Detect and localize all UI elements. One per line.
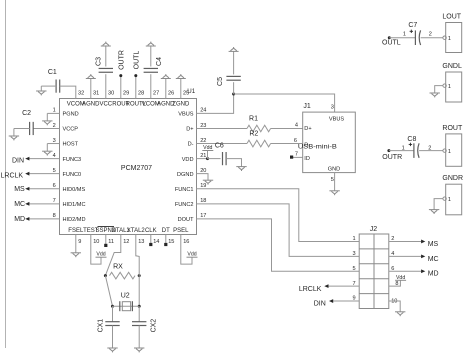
svg-text:3: 3 bbox=[352, 251, 355, 257]
wire C4 to analog ground flag bbox=[150, 46, 152, 67]
svg-text:PSEL: PSEL bbox=[173, 228, 189, 234]
wire U1 pin 27 to C4 bbox=[150, 74, 152, 98]
svg-text:5: 5 bbox=[53, 168, 56, 174]
wire U1 pin 20 DGND stub bbox=[197, 174, 209, 181]
resistor RX bbox=[110, 263, 136, 279]
ground at GNDR bbox=[429, 210, 439, 214]
svg-text:DIN: DIN bbox=[314, 301, 326, 308]
svg-text:OUTR: OUTR bbox=[118, 50, 125, 70]
ground at pin 3 bbox=[42, 151, 52, 155]
wire U1 pin 18 FUNC2 to J2 pin 3 bbox=[197, 204, 360, 257]
svg-text:5: 5 bbox=[352, 266, 355, 272]
J1 pin 5 GND bbox=[328, 167, 340, 184]
svg-text:MS: MS bbox=[428, 241, 439, 248]
node U2 left bbox=[111, 305, 114, 308]
ground at CX2 bbox=[134, 348, 144, 352]
port MC bbox=[14, 201, 29, 208]
wire C6 to ground bbox=[226, 159, 241, 167]
svg-text:1: 1 bbox=[448, 36, 451, 42]
U1 right pin numbers 24-17 bbox=[200, 108, 206, 219]
svg-text:D-: D- bbox=[304, 142, 310, 148]
wire C1 to U1 pin 32 bbox=[60, 86, 76, 98]
wire RX right to crystal U2 bbox=[138, 276, 140, 307]
wire MC to U1 pin 7 bbox=[29, 203, 60, 205]
svg-text:20: 20 bbox=[200, 168, 206, 174]
no-connect square at pin 11 bbox=[104, 244, 107, 247]
svg-text:2: 2 bbox=[429, 32, 432, 38]
svg-text:VDD: VDD bbox=[182, 157, 194, 163]
svg-text:2: 2 bbox=[428, 146, 431, 152]
wire DIN to U1 pin 4 bbox=[29, 158, 60, 160]
J1 value label USB-mini-B bbox=[298, 143, 337, 150]
wire C3 to analog ground flag bbox=[105, 46, 107, 67]
svg-text:D+: D+ bbox=[186, 127, 193, 133]
svg-text:28: 28 bbox=[138, 90, 144, 96]
svg-text:2: 2 bbox=[53, 123, 56, 129]
svg-text:24: 24 bbox=[200, 108, 206, 114]
svg-text:OUTL: OUTL bbox=[133, 51, 140, 70]
wire U1 pin 3 HOST stub bbox=[47, 144, 59, 152]
wire MS to U1 pin 6 bbox=[29, 188, 60, 190]
svg-text:C2: C2 bbox=[22, 110, 31, 117]
U1 value label PCM2707 bbox=[121, 165, 152, 172]
analog ground flag at pin 31 bbox=[86, 74, 96, 78]
svg-text:29: 29 bbox=[123, 90, 129, 96]
svg-text:U2: U2 bbox=[121, 293, 130, 300]
port MS right bbox=[421, 240, 438, 248]
svg-text:9: 9 bbox=[78, 239, 81, 245]
svg-text:C8: C8 bbox=[407, 136, 416, 143]
svg-text:22: 22 bbox=[200, 138, 206, 144]
power flag Vdd at pin 21 bbox=[202, 145, 213, 151]
wire J2 pin 4 to MC bbox=[389, 255, 421, 257]
wire U1 pin 25 up bbox=[180, 79, 182, 99]
svg-text:7: 7 bbox=[295, 152, 298, 158]
node XTAL2 at RX right bbox=[138, 274, 141, 277]
svg-text:3: 3 bbox=[331, 104, 334, 110]
svg-text:CX2: CX2 bbox=[150, 319, 157, 333]
wire C2 to ground bbox=[14, 128, 30, 136]
svg-text:AGND: AGND bbox=[82, 101, 100, 107]
svg-text:C1: C1 bbox=[48, 69, 57, 76]
wire node to Vdd flag bbox=[207, 151, 209, 159]
svg-text:10: 10 bbox=[391, 299, 397, 305]
svg-text:4: 4 bbox=[295, 123, 298, 129]
port LRCLK bbox=[1, 172, 30, 180]
wire U2 right to CX2 bbox=[138, 306, 140, 322]
capacitor C4 bbox=[144, 57, 163, 72]
wire R2 to J1 pin 6 bbox=[271, 143, 303, 145]
wire U1 pin 12 XTAL1 to RX bbox=[105, 235, 120, 276]
svg-text:R2: R2 bbox=[249, 130, 258, 137]
ground at pin 1 bbox=[42, 121, 52, 125]
svg-text:GNDR: GNDR bbox=[442, 175, 463, 182]
wire U1 pin 29 to node OUTR bbox=[120, 76, 122, 99]
svg-text:14: 14 bbox=[153, 239, 159, 245]
svg-text:FUNC0: FUNC0 bbox=[63, 172, 82, 178]
power flag Vdd at J2 pin 8 bbox=[395, 275, 406, 281]
wire U1 pin 21 VDD stub bbox=[197, 158, 208, 160]
capacitor C6 bbox=[215, 142, 226, 165]
wire CX1 to ground bbox=[112, 326, 114, 349]
svg-text:26: 26 bbox=[168, 90, 174, 96]
wire U1 pin 26 up bbox=[165, 79, 167, 99]
analog ground flag above C5 bbox=[229, 47, 239, 51]
svg-text:LOUT: LOUT bbox=[442, 14, 461, 21]
wire U1 pin 13 XTAL2 to RX bbox=[136, 235, 139, 276]
svg-text:1: 1 bbox=[53, 108, 56, 114]
svg-text:VBUS: VBUS bbox=[329, 116, 345, 122]
ground at GNDL bbox=[430, 93, 440, 97]
svg-text:FSEL: FSEL bbox=[68, 228, 84, 234]
wire U1 pin 2 to C2 bbox=[33, 127, 59, 129]
svg-text:1: 1 bbox=[448, 197, 451, 203]
ground at pin 9 bbox=[71, 253, 81, 257]
svg-text:VCCP: VCCP bbox=[63, 127, 79, 133]
svg-text:27: 27 bbox=[153, 90, 159, 96]
wire U1 pin 17 DOUT to J2 pin 5 bbox=[197, 219, 360, 271]
port MC right bbox=[421, 254, 438, 262]
svg-text:DIN: DIN bbox=[12, 157, 24, 164]
node U2 right bbox=[138, 305, 141, 308]
ground at J1 pin 5 bbox=[329, 191, 339, 195]
sheet frame border bbox=[5, 0, 7, 348]
port MS bbox=[14, 186, 29, 193]
svg-text:LRCLK: LRCLK bbox=[299, 286, 322, 293]
svg-text:HID1/MC: HID1/MC bbox=[63, 202, 86, 208]
svg-text:GND: GND bbox=[328, 167, 340, 173]
svg-text:30: 30 bbox=[108, 90, 114, 96]
capacitor CX2 bbox=[132, 319, 157, 333]
svg-text:6: 6 bbox=[294, 138, 297, 144]
ground at CX1 bbox=[107, 348, 117, 352]
svg-text:18: 18 bbox=[200, 198, 206, 204]
svg-text:C6: C6 bbox=[215, 142, 224, 149]
node VBUS junction at C5 bbox=[232, 93, 235, 96]
wire C1 left to ground bbox=[41, 86, 56, 91]
svg-text:1: 1 bbox=[402, 146, 405, 152]
svg-text:CX1: CX1 bbox=[97, 319, 104, 333]
svg-text:DT: DT bbox=[162, 228, 170, 234]
svg-text:11: 11 bbox=[108, 239, 114, 245]
power flag Vdd at pin 10 bbox=[96, 252, 107, 258]
wire U1 pin 15 DT stub bbox=[165, 235, 167, 244]
wire OUTR to C8 bbox=[389, 146, 414, 152]
wire U1 pin 9 FSEL to ground bbox=[75, 235, 77, 253]
ground at C2 bbox=[9, 136, 19, 140]
resistor R2 bbox=[247, 130, 271, 146]
svg-text:1: 1 bbox=[448, 84, 451, 90]
svg-text:C7: C7 bbox=[408, 22, 417, 29]
wire U2 left to CX1 bbox=[112, 306, 114, 322]
svg-text:19: 19 bbox=[200, 183, 206, 189]
svg-text:LRCLK: LRCLK bbox=[1, 172, 24, 179]
wire U1 pin 31 up bbox=[90, 79, 92, 99]
svg-text:PCM2707: PCM2707 bbox=[121, 165, 152, 172]
svg-text:4: 4 bbox=[53, 153, 56, 159]
svg-text:D+: D+ bbox=[304, 126, 311, 132]
connector ROUT bbox=[442, 125, 463, 166]
svg-text:HID0/MS: HID0/MS bbox=[63, 187, 86, 193]
wire U1 pin 24 VBUS to node bbox=[197, 94, 234, 113]
svg-text:3: 3 bbox=[53, 138, 56, 144]
svg-text:CLK: CLK bbox=[145, 228, 157, 234]
node OUTL at pin 28 bbox=[133, 51, 140, 78]
svg-text:12: 12 bbox=[123, 239, 129, 245]
svg-text:ID: ID bbox=[304, 156, 310, 162]
svg-text:1: 1 bbox=[352, 236, 355, 242]
capacitor C8 polarized bbox=[407, 136, 419, 158]
svg-text:HID2/MD: HID2/MD bbox=[63, 217, 86, 223]
analog ground flag above C4 bbox=[146, 42, 156, 46]
svg-text:OUTL: OUTL bbox=[382, 39, 401, 46]
wire U1 pin 23 to R1 bbox=[197, 127, 248, 129]
ground at pin 20 bbox=[203, 180, 213, 184]
svg-text:DGND: DGND bbox=[177, 172, 193, 178]
wire node to C6 bbox=[208, 158, 221, 160]
U1 left pin names 1-8 bbox=[63, 112, 86, 223]
analog ground flag above C3 bbox=[101, 42, 111, 46]
wire U1 pin 30 to C3 bbox=[105, 74, 107, 98]
svg-text:MD: MD bbox=[428, 271, 439, 278]
svg-text:15: 15 bbox=[168, 239, 174, 245]
svg-text:VCC: VCC bbox=[99, 101, 112, 107]
op-amp/IC U1 PCM2707 body bbox=[60, 88, 197, 234]
no-connect square at pin 15 bbox=[164, 243, 167, 246]
svg-text:MC: MC bbox=[428, 256, 439, 263]
capacitor C5 bbox=[217, 76, 241, 86]
svg-text:21: 21 bbox=[200, 153, 206, 159]
svg-text:7: 7 bbox=[53, 198, 56, 204]
svg-text:ZGND: ZGND bbox=[172, 101, 190, 107]
ground at J2 pin 10 bbox=[395, 312, 405, 316]
node OUTR at pin 29 bbox=[118, 50, 125, 77]
J1 pin 6 D- bbox=[294, 138, 310, 148]
ground at C1 bbox=[36, 91, 46, 95]
svg-text:17: 17 bbox=[200, 213, 206, 219]
U1 bottom pin numbers 9-16 bbox=[78, 239, 189, 245]
port LRCLK at J2 bbox=[299, 284, 329, 293]
connector J1 body bbox=[303, 103, 356, 173]
U1 top pin numbers 32-25 bbox=[78, 90, 189, 96]
wire U1 pin 1 PGND stub bbox=[47, 113, 59, 121]
svg-text:J2: J2 bbox=[370, 226, 378, 233]
wire C7 to LOUT bbox=[421, 32, 443, 38]
node XTAL1 at RX left bbox=[104, 274, 107, 277]
analog ground flag at pin 25 bbox=[176, 74, 186, 78]
wire node to C5 bbox=[233, 82, 235, 94]
J1 pin 4 D+ bbox=[295, 123, 312, 133]
J2 left pin numbers 1 3 5 7 9 bbox=[352, 236, 355, 302]
connector GNDR bbox=[442, 175, 463, 215]
no-connect square at pin 14 bbox=[149, 243, 152, 246]
J1 pin 3 VBUS label bbox=[329, 104, 345, 122]
wire GNDR pin 1 to ground bbox=[434, 199, 443, 210]
svg-text:16: 16 bbox=[183, 239, 189, 245]
wire U1 pin 11 SSPND stub bbox=[105, 235, 107, 245]
svg-text:25: 25 bbox=[183, 90, 189, 96]
resistor R1 bbox=[247, 116, 271, 132]
wire LRCLK to U1 pin 5 bbox=[29, 173, 60, 175]
node OUTR net label bbox=[382, 149, 402, 161]
no-connect square at J1 pin 7 bbox=[290, 156, 293, 159]
wire R1 to J1 pin 4 bbox=[271, 127, 303, 129]
svg-text:MD: MD bbox=[14, 216, 25, 223]
capacitor CX1 bbox=[97, 319, 119, 333]
J1 pin 7 ID stub bbox=[292, 152, 310, 162]
wire C8 to ROUT bbox=[419, 146, 443, 152]
wire GNDL pin 1 to ground bbox=[435, 86, 443, 93]
U1 bottom pin name row FSEL TEST SSPND XTAL1 XTAL2 CLK DT PSEL bbox=[68, 228, 189, 234]
J2 right pin numbers 2 4 6 8 10 bbox=[391, 236, 398, 305]
ground at C6 bbox=[236, 167, 246, 171]
node OUTL net label bbox=[382, 36, 401, 46]
svg-text:8: 8 bbox=[53, 213, 56, 219]
svg-text:D-: D- bbox=[188, 142, 194, 148]
wire OUTL to C7 bbox=[389, 31, 415, 37]
power flag Vdd at pin 16 bbox=[187, 252, 198, 258]
svg-text:C5: C5 bbox=[217, 77, 224, 86]
svg-text:FUNC2: FUNC2 bbox=[175, 202, 194, 208]
svg-text:FUNC3: FUNC3 bbox=[63, 157, 82, 163]
capacitor C2 bbox=[22, 110, 33, 135]
wire DIN to J2 pin 9 bbox=[333, 300, 359, 302]
port MD bbox=[14, 216, 29, 223]
svg-text:R1: R1 bbox=[249, 116, 258, 123]
svg-text:1: 1 bbox=[403, 31, 406, 37]
crystal U2 bbox=[113, 293, 140, 312]
wire C5 to analog ground flag bbox=[233, 51, 235, 74]
svg-text:13: 13 bbox=[138, 239, 144, 245]
connector GNDL bbox=[442, 63, 462, 102]
svg-text:OUTR: OUTR bbox=[382, 154, 402, 161]
wire U1 pin 14 CLK stub bbox=[150, 235, 152, 244]
svg-text:FUNC1: FUNC1 bbox=[175, 187, 194, 193]
svg-text:ROUT: ROUT bbox=[442, 125, 463, 132]
wire U1 pin 10 TEST to Vdd bbox=[91, 235, 101, 265]
wire U1 pin 16 PSEL to Vdd bbox=[181, 235, 192, 265]
svg-text:5: 5 bbox=[331, 177, 334, 183]
wire U1 pin 28 to node OUTL bbox=[135, 76, 137, 99]
wire J2 pin 6 to MD bbox=[389, 270, 421, 272]
wire VBUS node to J1 pin 3 bbox=[234, 94, 335, 112]
port DIN bbox=[12, 157, 29, 165]
svg-text:DOUT: DOUT bbox=[178, 217, 194, 223]
U1 right pin names 24-17 bbox=[175, 112, 194, 223]
svg-text:GNDL: GNDL bbox=[442, 63, 462, 70]
capacitor C3 bbox=[96, 57, 113, 72]
svg-text:31: 31 bbox=[93, 90, 99, 96]
svg-text:RX: RX bbox=[113, 263, 123, 270]
U1 top pin name row VCOM AGND VCC ROUT ROUTL VCOM AGND ZGND bbox=[67, 101, 190, 107]
wire U1 pin 19 FUNC1 to J2 pin 1 bbox=[197, 189, 360, 242]
analog ground flag at pin 26 bbox=[161, 74, 171, 78]
port MD right bbox=[421, 269, 438, 277]
svg-text:23: 23 bbox=[200, 123, 206, 129]
connector J2 body bbox=[359, 226, 389, 309]
capacitor C1 bbox=[48, 69, 60, 93]
svg-text:C3: C3 bbox=[96, 57, 103, 66]
wire J1 pin 5 to ground bbox=[334, 173, 336, 191]
svg-text:VBUS: VBUS bbox=[178, 112, 194, 118]
SSPND overline bbox=[98, 225, 115, 227]
port DIN at J2 bbox=[314, 299, 333, 308]
wire LRCLK to J2 pin 7 bbox=[328, 285, 359, 287]
wire MD to U1 pin 8 bbox=[29, 218, 60, 220]
U1 left pin numbers 1-8 bbox=[53, 108, 56, 219]
wire U1 pin 22 to R2 bbox=[197, 143, 248, 145]
svg-text:PGND: PGND bbox=[63, 112, 79, 118]
svg-text:HOST: HOST bbox=[63, 142, 79, 148]
wire J2 pin 2 to MS bbox=[389, 240, 421, 242]
svg-text:6: 6 bbox=[53, 183, 56, 189]
svg-text:1: 1 bbox=[448, 149, 451, 155]
svg-text:C4: C4 bbox=[156, 57, 163, 66]
node at pin 21 bbox=[206, 157, 209, 160]
svg-text:MC: MC bbox=[14, 201, 25, 208]
svg-text:10: 10 bbox=[93, 239, 99, 245]
wire RX left to crystal U2 bbox=[105, 276, 112, 307]
wire CX2 to ground bbox=[138, 326, 140, 349]
svg-text:32: 32 bbox=[78, 90, 84, 96]
svg-text:MS: MS bbox=[14, 186, 25, 193]
wire J2 pin 10 to ground bbox=[389, 301, 400, 312]
svg-text:XTAL2: XTAL2 bbox=[127, 228, 146, 234]
capacitor C7 polarized bbox=[408, 22, 420, 45]
svg-text:J1: J1 bbox=[303, 103, 311, 110]
wire J2 pin 8 to Vdd bbox=[389, 280, 401, 286]
connector LOUT bbox=[442, 14, 461, 53]
